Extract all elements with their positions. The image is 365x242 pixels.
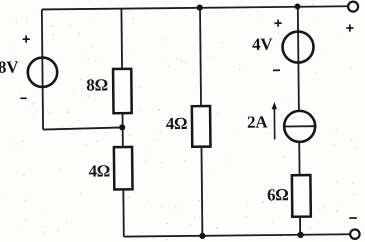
svg-text:8V: 8V xyxy=(0,58,19,77)
svg-text:4Ω: 4Ω xyxy=(88,161,110,180)
svg-text:4Ω: 4Ω xyxy=(166,114,188,133)
svg-text:6Ω: 6Ω xyxy=(267,185,289,204)
svg-text:8Ω: 8Ω xyxy=(86,75,108,94)
svg-text:4V: 4V xyxy=(252,35,273,54)
svg-text:2A: 2A xyxy=(247,112,268,131)
